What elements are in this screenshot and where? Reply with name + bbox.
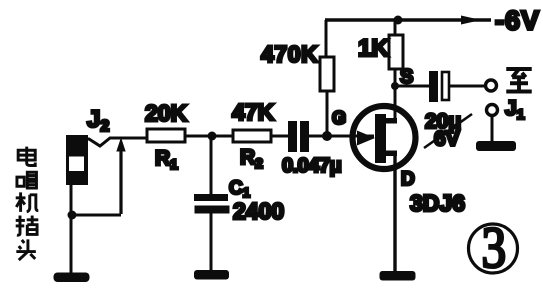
svg-text:R1: R1 bbox=[155, 147, 178, 172]
connector J2 plug body bbox=[66, 135, 88, 185]
arrowhead on supply rail bbox=[461, 16, 481, 25]
resistor R4 1K (vertical) bbox=[389, 35, 403, 69]
svg-text:470K: 470K bbox=[261, 41, 318, 67]
resistor R2 47K bbox=[233, 130, 271, 142]
svg-text:47K: 47K bbox=[232, 99, 275, 125]
junction dot (sleeve node) bbox=[68, 211, 77, 220]
resistor R1 20K bbox=[147, 129, 185, 142]
jack arrow contact (plug tip) bbox=[117, 139, 125, 214]
top supply rail bbox=[325, 18, 491, 21]
svg-text:J1: J1 bbox=[505, 97, 525, 122]
terminal (J1 return, lower) bbox=[487, 105, 498, 116]
wire: S to output cap bbox=[395, 85, 429, 88]
svg-text:1K: 1K bbox=[358, 35, 389, 62]
ground (J2) bbox=[54, 273, 90, 283]
svg-text:3: 3 bbox=[482, 215, 507, 280]
wire: lower terminal to ground bbox=[491, 116, 494, 142]
svg-text:-6V: -6V bbox=[495, 6, 540, 36]
junction node A dot bbox=[208, 132, 217, 141]
label 电唱机插头 (record player plug), hand-drawn CJK bbox=[16, 147, 39, 260]
wire: 1K down to S node bbox=[394, 20, 397, 122]
svg-text:20K: 20K bbox=[145, 100, 188, 126]
ground (drain) bbox=[380, 271, 416, 281]
junction dot (1K / rail) bbox=[394, 16, 403, 25]
transistor Q1 3DJ6 JFET bbox=[353, 106, 416, 169]
wire: 470K leads bbox=[326, 20, 327, 133]
wire: plug sleeve down to ground bbox=[70, 183, 73, 273]
capacitor 0.047u plates bbox=[288, 121, 309, 152]
wire: drain D down to ground bbox=[393, 153, 396, 271]
svg-text:0.047μ: 0.047μ bbox=[282, 155, 341, 177]
svg-text:3DJ6: 3DJ6 bbox=[410, 190, 465, 216]
wire: R2 to coupling cap bbox=[271, 135, 288, 138]
ground (C1) bbox=[194, 270, 229, 280]
label 至 (to), hand-drawn CJK bbox=[506, 69, 532, 92]
svg-text:J2: J2 bbox=[87, 106, 109, 135]
svg-text:C1: C1 bbox=[229, 178, 250, 200]
wire: arrow return to sleeve line bbox=[72, 214, 121, 217]
svg-text:2400: 2400 bbox=[233, 198, 284, 224]
插 bbox=[16, 216, 39, 236]
wire: R1 to node A bbox=[185, 135, 233, 138]
wire: jack J2 spring contact with V notch bbox=[85, 138, 147, 146]
resistor R3 470K (vertical) bbox=[320, 57, 334, 91]
terminal (output, upper) bbox=[486, 80, 497, 91]
头 bbox=[16, 239, 36, 260]
figure number 3 (circled) bbox=[469, 215, 518, 280]
wire: cap to output terminal bbox=[449, 85, 485, 88]
ground (J1) bbox=[476, 141, 516, 151]
唱 bbox=[17, 172, 37, 188]
junction dot S node bbox=[391, 82, 399, 90]
wire: node A down to C1 bbox=[210, 136, 213, 195]
svg-text:6V: 6V bbox=[434, 128, 460, 151]
svg-text:G: G bbox=[332, 108, 346, 128]
svg-text:D: D bbox=[401, 169, 415, 190]
机 bbox=[16, 192, 39, 212]
wire: C1 to ground bbox=[210, 213, 213, 271]
svg-text:R2: R2 bbox=[240, 146, 263, 171]
capacitor C2 20μ/6V electrolytic bbox=[429, 71, 449, 102]
电 bbox=[18, 147, 35, 166]
value slash bbox=[424, 114, 472, 148]
capacitor C1 plates bbox=[194, 194, 230, 214]
junction node G dot bbox=[322, 131, 332, 141]
wire: cap to node G bbox=[309, 135, 374, 138]
